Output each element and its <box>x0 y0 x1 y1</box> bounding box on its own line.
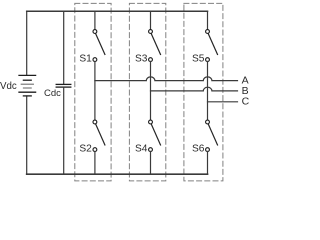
svg-text:S3: S3 <box>135 54 148 65</box>
dashed enclosure leg 3 <box>184 3 223 181</box>
switch S1 terminal circles <box>93 30 97 62</box>
wire: phase B output with hop over leg 3 <box>151 87 238 91</box>
dashed enclosure leg 2 <box>129 3 165 181</box>
svg-text:S4: S4 <box>135 144 148 155</box>
switch S2 terminal circles <box>93 120 97 151</box>
wire: bottom DC bus <box>27 173 208 175</box>
wire: leg1 top <box>94 11 96 29</box>
switch S3 terminal circles <box>149 30 153 62</box>
switch S4 blade <box>151 124 160 144</box>
svg-text:S5: S5 <box>192 54 205 65</box>
wire: leg1 middle <box>94 62 96 121</box>
switch S4 terminal circles <box>149 120 153 151</box>
wire: leg3 top <box>207 11 209 29</box>
switch S5 blade <box>208 34 217 55</box>
wire: leg2 top <box>150 11 152 29</box>
battery Vdc <box>19 75 36 96</box>
svg-text:S6: S6 <box>192 144 205 155</box>
wire: phase A output with hops over legs 2 and 3 <box>95 77 238 81</box>
wire: top DC bus <box>27 10 208 12</box>
switch S5 terminal circles <box>206 30 210 62</box>
dashed enclosure leg 1 <box>75 3 111 181</box>
wire: left rail lower (Vdc to bottom bus) <box>26 96 28 174</box>
svg-text:S2: S2 <box>79 144 92 155</box>
wire: leg2 bottom <box>150 152 152 175</box>
switch S1 blade <box>96 34 105 55</box>
wire: phase C output <box>208 101 238 103</box>
wire: leg2 middle <box>150 62 152 121</box>
svg-text:S1: S1 <box>79 54 92 65</box>
wire: leg3 bottom <box>207 152 209 175</box>
capacitor Cdc <box>56 84 71 87</box>
switch S6 blade <box>208 124 217 144</box>
svg-text:Cdc: Cdc <box>44 88 61 99</box>
svg-text:Vdc: Vdc <box>0 81 17 92</box>
wire: Cdc bottom branch <box>63 88 65 175</box>
wire: Cdc top branch <box>63 11 65 83</box>
svg-text:C: C <box>242 96 250 108</box>
switch S3 blade <box>151 34 160 55</box>
wire: leg3 middle <box>207 62 209 121</box>
wire: leg1 bottom <box>94 152 96 175</box>
switch S6 terminal circles <box>206 120 210 151</box>
switch S2 blade <box>96 124 105 144</box>
wire: left rail upper (Vdc to top bus) <box>26 11 28 75</box>
